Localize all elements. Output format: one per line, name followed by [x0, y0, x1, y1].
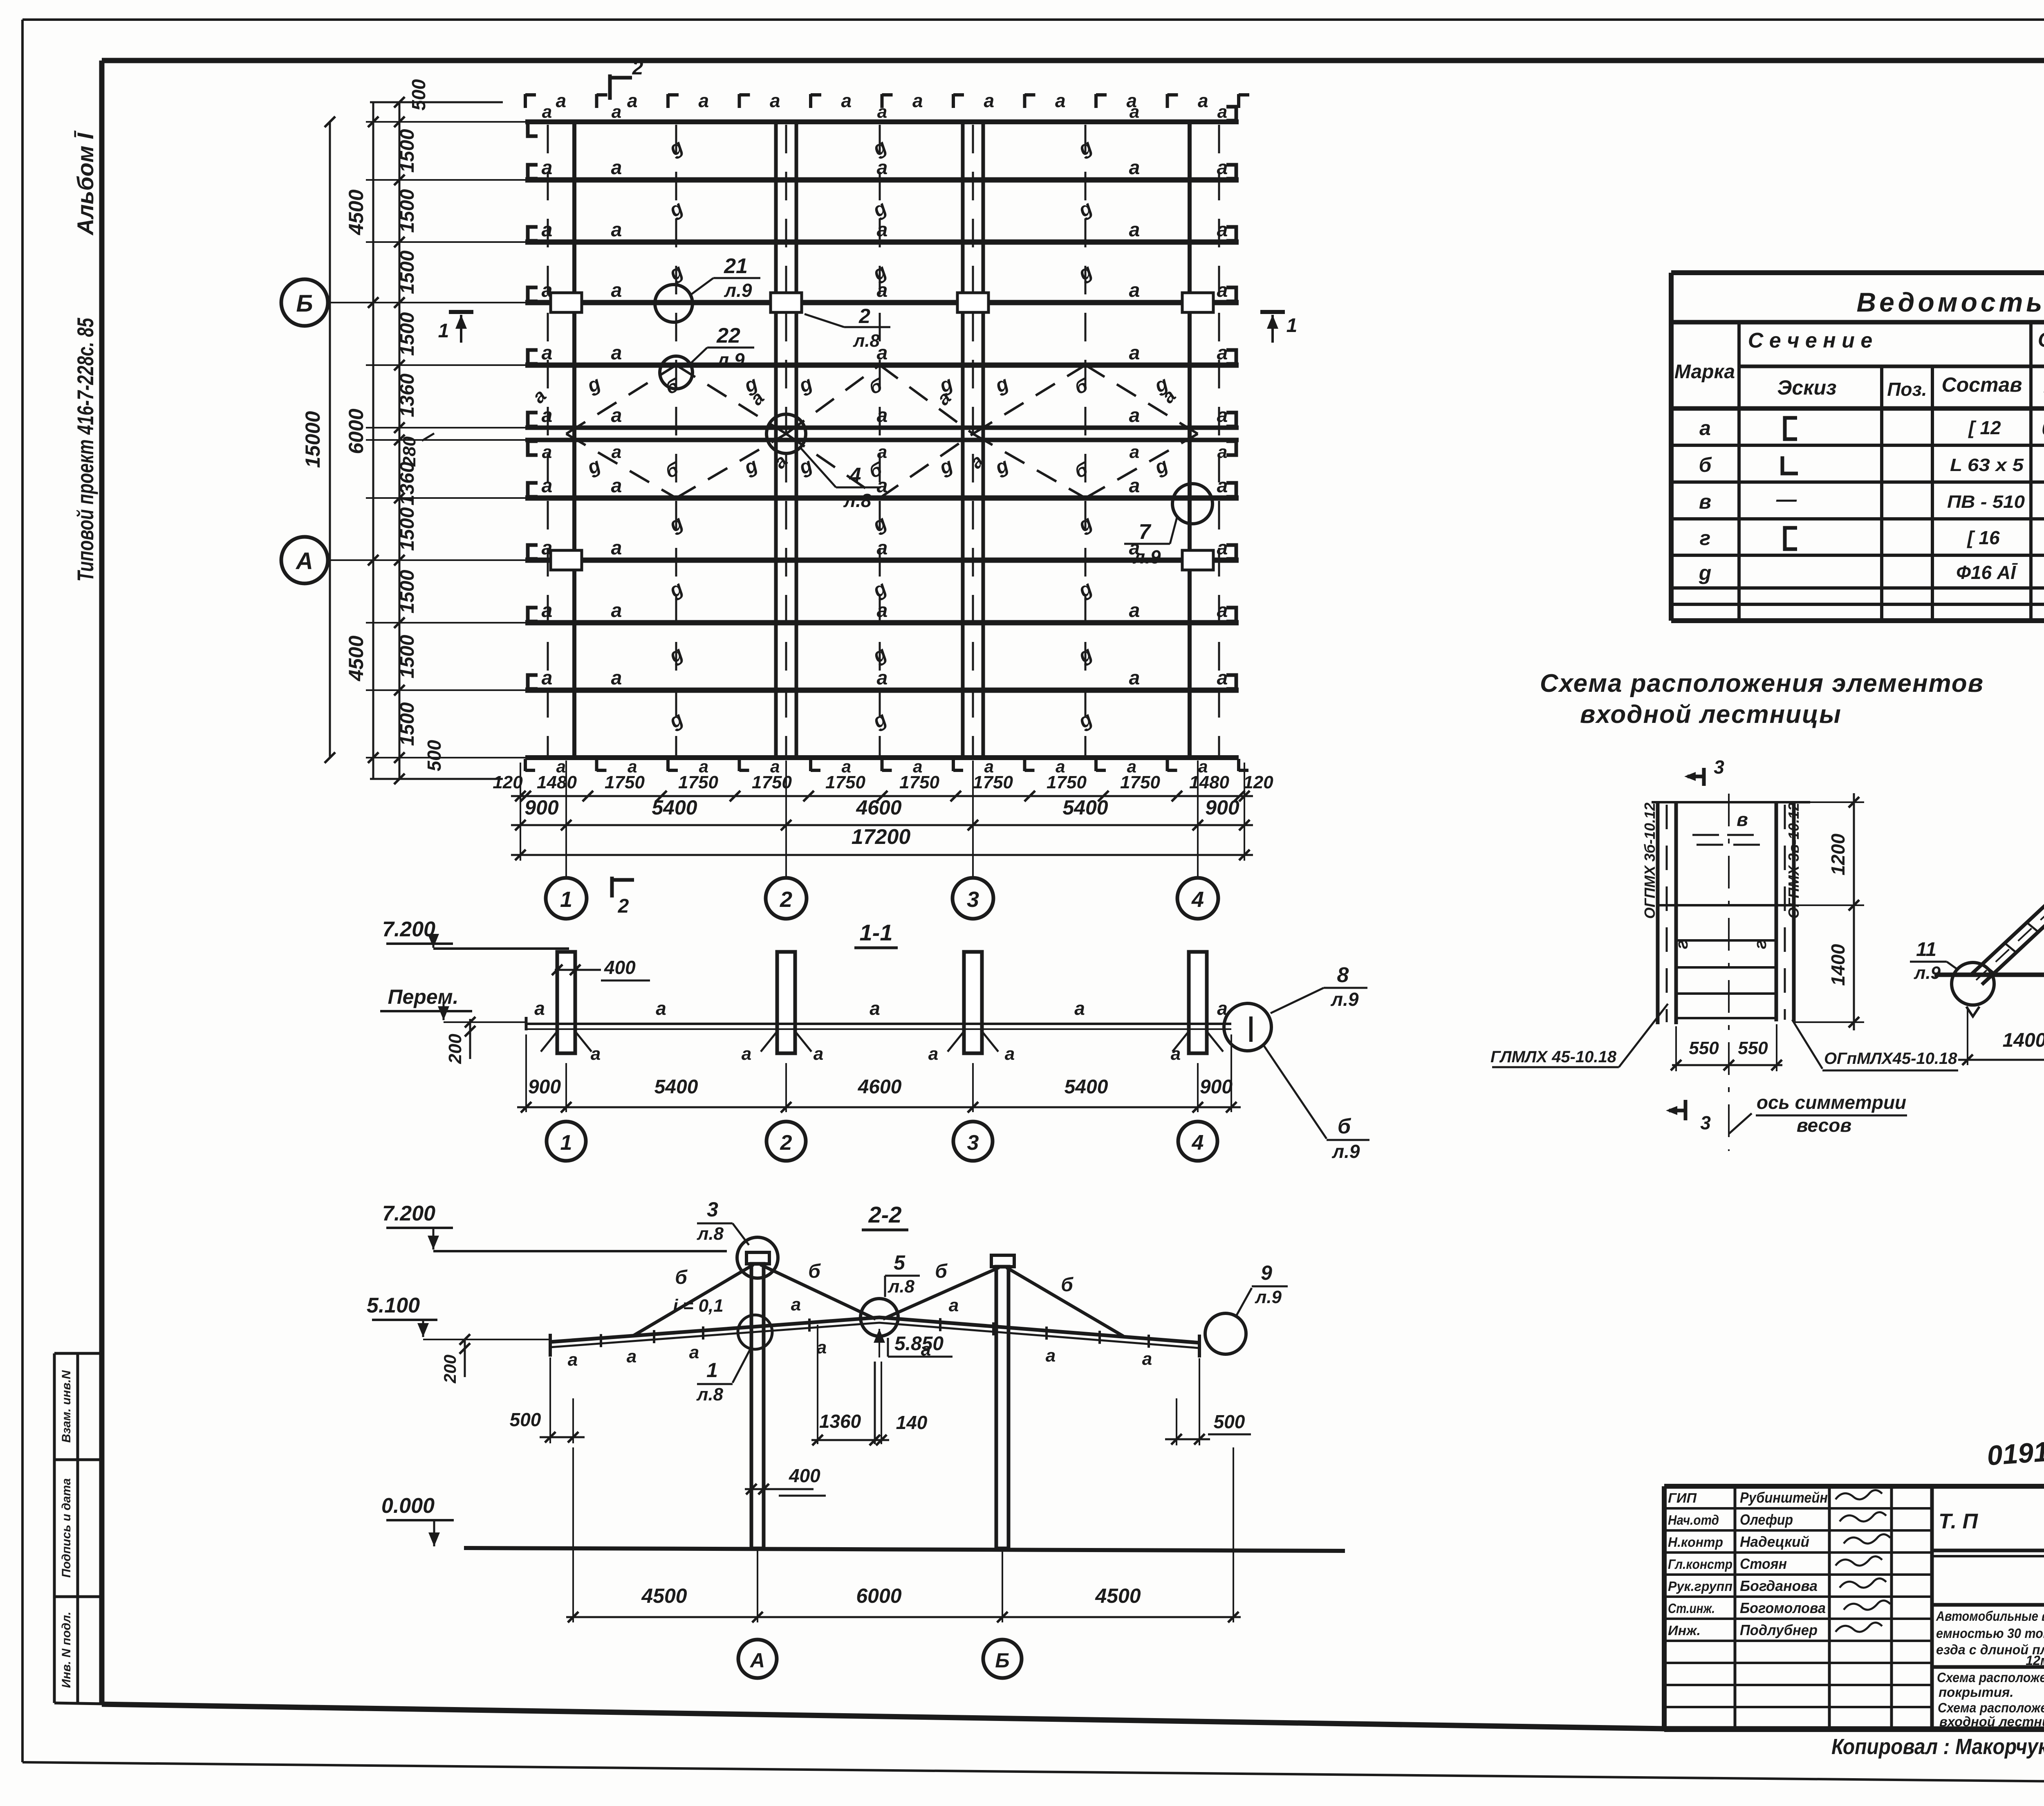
svg-text:ГЛМЛХ 45-10.18: ГЛМЛХ 45-10.18: [1490, 1048, 1617, 1066]
svg-text:1480: 1480: [537, 772, 577, 792]
svg-text:2: 2: [780, 1131, 792, 1155]
svg-text:a: a: [1129, 280, 1140, 301]
svg-text:Альбом Ī: Альбом Ī: [72, 130, 98, 236]
svg-text:1750: 1750: [1047, 772, 1087, 792]
svg-text:4500: 4500: [1095, 1584, 1141, 1607]
svg-text:1750: 1750: [605, 772, 645, 792]
svg-text:входной лестницы: входной лестницы: [1580, 700, 1842, 729]
svg-text:4: 4: [849, 464, 861, 487]
svg-text:a: a: [870, 998, 880, 1019]
svg-text:а: а: [1699, 417, 1711, 440]
svg-text:г: г: [1700, 527, 1711, 550]
svg-text:Нач.отд: Нач.отд: [1668, 1512, 1719, 1528]
svg-text:a: a: [542, 102, 552, 122]
svg-text:500: 500: [408, 79, 429, 110]
svg-text:Ведомость элементов: Ведомость элементов: [1856, 287, 2044, 317]
svg-text:2: 2: [858, 305, 870, 328]
svg-text:Схема расположения элементов: Схема расположения элементов: [1938, 1700, 2044, 1715]
svg-text:1: 1: [560, 887, 572, 912]
svg-text:1500: 1500: [397, 312, 418, 356]
svg-text:л.8: л.8: [888, 1277, 915, 1297]
svg-text:2: 2: [632, 57, 643, 79]
svg-text:a: a: [1129, 405, 1140, 426]
svg-text:a: a: [1129, 475, 1140, 497]
svg-text:4: 4: [1191, 887, 1204, 912]
svg-text:[ 12: [ 12: [1968, 417, 2001, 438]
svg-text:1: 1: [560, 1131, 572, 1155]
svg-text:6000: 6000: [856, 1584, 901, 1607]
svg-text:a: a: [1130, 102, 1139, 122]
svg-text:a: a: [1171, 1044, 1181, 1064]
svg-text:б: б: [675, 1267, 688, 1288]
svg-text:a: a: [1046, 1346, 1056, 1366]
svg-text:8: 8: [1337, 963, 1349, 987]
svg-text:a: a: [814, 1044, 823, 1064]
svg-text:3: 3: [967, 887, 979, 912]
svg-text:Автомобильные весы грузоподъ-: Автомобильные весы грузоподъ-: [1936, 1609, 2044, 1624]
svg-text:покрытия.: покрытия.: [1939, 1685, 2013, 1700]
svg-text:a: a: [534, 998, 545, 1019]
svg-text:500: 500: [424, 740, 445, 771]
svg-text:5: 5: [894, 1251, 905, 1274]
svg-text:i = 0,1: i = 0,1: [673, 1296, 724, 1316]
svg-text:900: 900: [528, 1076, 561, 1098]
svg-text:a: a: [612, 442, 621, 462]
svg-text:a: a: [877, 537, 888, 559]
svg-text:3: 3: [967, 1131, 979, 1155]
svg-text:200: 200: [440, 1355, 459, 1384]
svg-text:a: a: [542, 667, 553, 689]
svg-text:a: a: [1217, 537, 1228, 559]
svg-text:б: б: [1061, 1274, 1074, 1296]
svg-text:Схема расположения элементов: Схема расположения элементов: [1540, 669, 1984, 698]
svg-text:1: 1: [438, 320, 449, 342]
svg-text:Б: Б: [995, 1649, 1009, 1672]
svg-text:1500: 1500: [397, 635, 418, 678]
svg-text:1500: 1500: [397, 507, 418, 551]
svg-text:280: 280: [399, 436, 419, 467]
svg-text:3: 3: [1714, 756, 1724, 778]
svg-text:a: a: [1129, 219, 1140, 241]
svg-text:a: a: [1074, 998, 1085, 1019]
svg-text:[ 16: [ 16: [1966, 527, 2000, 548]
svg-text:a: a: [611, 405, 622, 426]
svg-text:л.8: л.8: [697, 1224, 724, 1244]
svg-text:a: a: [542, 219, 553, 241]
svg-text:ГИП: ГИП: [1668, 1490, 1697, 1505]
svg-text:a: a: [611, 219, 622, 241]
svg-text:7.200: 7.200: [382, 1202, 435, 1225]
svg-text:ПВ - 510: ПВ - 510: [1947, 492, 2025, 512]
svg-text:a: a: [542, 600, 553, 621]
svg-text:б: б: [1338, 1115, 1351, 1138]
svg-text:5.850: 5.850: [894, 1333, 944, 1355]
svg-text:900: 900: [1205, 796, 1239, 819]
svg-text:a: a: [1217, 280, 1228, 301]
svg-text:2: 2: [618, 895, 629, 917]
svg-text:Копировал : Макорчук: Копировал : Макорчук: [1831, 1734, 2044, 1759]
svg-text:7: 7: [1139, 520, 1152, 544]
svg-text:a: a: [1198, 90, 1208, 111]
svg-text:л.9: л.9: [717, 349, 745, 370]
svg-text:a: a: [877, 219, 888, 241]
svg-text:входной лестницы: входной лестницы: [1939, 1714, 2044, 1729]
svg-text:a: a: [1217, 667, 1228, 689]
svg-text:a: a: [568, 1350, 578, 1370]
svg-text:500: 500: [1214, 1411, 1245, 1432]
svg-text:Надецкий: Надецкий: [1740, 1533, 1809, 1550]
svg-text:4: 4: [1192, 1131, 1204, 1155]
svg-text:a: a: [698, 90, 709, 111]
svg-text:a: a: [611, 157, 622, 179]
svg-text:a: a: [877, 442, 887, 462]
svg-text:1500: 1500: [397, 129, 418, 173]
svg-text:л.9: л.9: [1332, 1141, 1360, 1162]
svg-text:Типовой проект 416-7-228с. 8: Типовой проект 416-7-228с. 85: [72, 318, 98, 582]
svg-text:л.9: л.9: [1255, 1287, 1282, 1307]
svg-text:6000: 6000: [345, 408, 368, 454]
svg-text:4500: 4500: [345, 635, 368, 681]
svg-text:1500: 1500: [397, 250, 418, 294]
svg-text:б: б: [1699, 453, 1712, 476]
svg-text:4500: 4500: [345, 189, 368, 235]
svg-text:g: g: [1699, 561, 1712, 584]
svg-text:—: —: [1776, 488, 1797, 511]
svg-text:ОГПМХ 3б-10.12: ОГПМХ 3б-10.12: [1641, 803, 1658, 919]
svg-text:a: a: [949, 1295, 959, 1315]
svg-text:Подпись и дата: Подпись и дата: [60, 1478, 73, 1577]
svg-text:л.8: л.8: [696, 1384, 724, 1404]
svg-text:2-2: 2-2: [868, 1202, 902, 1227]
svg-text:a: a: [742, 1044, 751, 1064]
svg-text:1-1: 1-1: [860, 920, 893, 945]
svg-text:ось симметрии: ось симметрии: [1757, 1092, 1906, 1113]
svg-text:a: a: [627, 1346, 637, 1366]
svg-text:a: a: [1217, 405, 1228, 426]
svg-text:1750: 1750: [1120, 772, 1160, 792]
svg-text:б: б: [935, 1261, 948, 1282]
svg-text:a: a: [542, 442, 552, 462]
svg-text:a: a: [611, 600, 622, 621]
svg-text:400: 400: [789, 1465, 820, 1486]
svg-text:0.000: 0.000: [381, 1494, 435, 1518]
svg-text:Подлубнер: Подлубнер: [1740, 1622, 1818, 1638]
svg-text:Б: Б: [296, 290, 313, 317]
svg-text:4600: 4600: [858, 1076, 902, 1098]
svg-text:a: a: [984, 90, 994, 111]
svg-text:a: a: [611, 342, 622, 364]
svg-text:a: a: [1217, 342, 1228, 364]
svg-text:7.200: 7.200: [382, 918, 435, 941]
svg-text:500: 500: [510, 1409, 541, 1430]
svg-text:л.9: л.9: [1133, 546, 1161, 568]
svg-text:Инв. N подл.: Инв. N подл.: [60, 1612, 73, 1688]
svg-text:л.8: л.8: [843, 490, 872, 511]
svg-text:a: a: [1055, 90, 1066, 111]
svg-text:весов: весов: [1797, 1115, 1851, 1136]
svg-text:a: a: [877, 405, 888, 426]
svg-text:ТС М: ТС М: [2043, 388, 2044, 405]
svg-text:a: a: [877, 667, 888, 689]
svg-text:a: a: [612, 102, 621, 122]
svg-text:a: a: [841, 90, 852, 111]
svg-text:Эскиз: Эскиз: [1777, 376, 1836, 399]
svg-text:ОГПМХ 3в-10.12: ОГПМХ 3в-10.12: [1785, 803, 1802, 919]
svg-text:a: a: [770, 90, 780, 111]
svg-text:5400: 5400: [654, 1076, 698, 1098]
svg-text:a: a: [611, 475, 622, 497]
svg-text:Т. П: Т. П: [1939, 1510, 1979, 1533]
svg-text:5.100: 5.100: [367, 1294, 420, 1317]
svg-text:a: a: [542, 280, 553, 301]
svg-text:1500: 1500: [397, 702, 418, 746]
svg-text:a: a: [1217, 475, 1228, 497]
svg-text:a: a: [542, 157, 553, 179]
svg-text:Опорные усилия: Опорные усилия: [2038, 328, 2044, 351]
svg-text:a: a: [556, 90, 566, 111]
svg-text:1: 1: [706, 1359, 718, 1382]
svg-text:a: a: [791, 1294, 801, 1315]
svg-text:Поз.: Поз.: [1887, 379, 1927, 400]
svg-text:120: 120: [493, 772, 523, 792]
svg-text:л.9: л.9: [724, 280, 752, 301]
svg-text:a: a: [542, 342, 553, 364]
svg-text:емностью 30 тонн на два про-: емностью 30 тонн на два про-: [1936, 1626, 2044, 1641]
svg-text:200: 200: [445, 1034, 465, 1064]
svg-text:1360: 1360: [397, 462, 418, 505]
svg-text:5400: 5400: [1065, 1076, 1108, 1098]
svg-text:21: 21: [724, 254, 748, 278]
svg-text:550: 550: [1689, 1038, 1719, 1058]
svg-text:1360: 1360: [819, 1411, 861, 1432]
svg-text:5400: 5400: [652, 796, 697, 819]
svg-text:л.9: л.9: [1914, 963, 1941, 983]
svg-text:a: a: [1217, 102, 1227, 122]
svg-text:Стоян: Стоян: [1740, 1555, 1787, 1572]
svg-text:9: 9: [1261, 1261, 1272, 1284]
svg-text:a: a: [689, 1342, 699, 1362]
svg-text:1: 1: [1286, 315, 1298, 337]
svg-text:1400: 1400: [1827, 944, 1849, 986]
svg-text:1750: 1750: [678, 772, 718, 792]
svg-text:900: 900: [1200, 1076, 1233, 1098]
svg-text:a: a: [542, 405, 553, 426]
svg-text:a: a: [1005, 1044, 1015, 1064]
svg-text:a: a: [1142, 1349, 1152, 1369]
svg-text:Взам. инв.N: Взам. инв.N: [60, 1370, 73, 1443]
svg-text:ОГпМЛХ45-10.18: ОГпМЛХ45-10.18: [1824, 1050, 1957, 1068]
svg-text:А: А: [295, 548, 313, 574]
svg-text:б: б: [808, 1261, 821, 1282]
svg-text:Рук.групп: Рук.групп: [1668, 1579, 1732, 1594]
svg-text:1480: 1480: [1189, 772, 1229, 792]
svg-text:a: a: [1217, 442, 1227, 462]
svg-text:3: 3: [1700, 1112, 1711, 1133]
svg-text:1750: 1750: [973, 772, 1013, 792]
svg-text:4500: 4500: [641, 1584, 687, 1607]
svg-text:2: 2: [780, 887, 792, 912]
svg-text:Богомолова: Богомолова: [1740, 1600, 1826, 1616]
svg-text:г: г: [1750, 940, 1770, 949]
svg-text:a: a: [656, 998, 666, 1019]
svg-text:400: 400: [604, 957, 636, 978]
svg-text:1360: 1360: [397, 373, 418, 417]
svg-text:Схема расположения элементов: Схема расположения элементов: [1937, 1670, 2044, 1685]
svg-text:L 63 x 5: L 63 x 5: [1950, 455, 2024, 475]
svg-text:a: a: [611, 537, 622, 559]
svg-text:С е ч е н и е: С е ч е н и е: [1748, 329, 1872, 352]
svg-text:a: a: [928, 1044, 938, 1064]
svg-text:л.8: л.8: [853, 331, 880, 351]
svg-text:1500: 1500: [397, 189, 418, 233]
svg-text:120: 120: [1243, 772, 1273, 792]
svg-text:a: a: [1129, 600, 1140, 621]
svg-text:a: a: [1217, 219, 1228, 241]
svg-text:в: в: [1737, 809, 1748, 830]
svg-text:л.9: л.9: [1331, 989, 1359, 1010]
svg-text:15000: 15000: [301, 411, 324, 468]
svg-text:a: a: [611, 280, 622, 301]
svg-text:Марка: Марка: [1674, 361, 1735, 383]
svg-text:11: 11: [1916, 939, 1936, 960]
svg-text:a: a: [1217, 157, 1228, 179]
svg-text:Олефир: Олефир: [1740, 1511, 1793, 1528]
svg-text:Инж.: Инж.: [1668, 1623, 1701, 1638]
svg-text:Гл.констр: Гл.констр: [1668, 1557, 1732, 1572]
svg-text:0,41: 0,41: [2042, 417, 2044, 440]
svg-text:a: a: [591, 1044, 601, 1064]
svg-text:Н.контр: Н.контр: [1668, 1535, 1723, 1550]
svg-text:Ф16 АĪ: Ф16 АĪ: [1956, 562, 2018, 583]
svg-text:Богданова: Богданова: [1740, 1577, 1818, 1594]
svg-text:a: a: [542, 537, 553, 559]
svg-text:3: 3: [707, 1198, 718, 1221]
svg-text:1500: 1500: [397, 570, 418, 613]
svg-text:a: a: [1217, 600, 1228, 621]
svg-text:a: a: [877, 600, 888, 621]
svg-text:1750: 1750: [899, 772, 939, 792]
svg-text:17200: 17200: [852, 825, 911, 849]
svg-text:550: 550: [1738, 1038, 1768, 1058]
svg-text:5400: 5400: [1062, 796, 1108, 819]
svg-text:Ст.инж.: Ст.инж.: [1668, 1601, 1715, 1616]
svg-text:a: a: [1129, 157, 1140, 179]
svg-text:в: в: [1699, 490, 1711, 513]
svg-text:Перем.: Перем.: [388, 985, 459, 1008]
svg-text:a: a: [1130, 442, 1139, 462]
svg-text:900: 900: [524, 796, 559, 819]
svg-text:a: a: [912, 90, 923, 111]
svg-text:140: 140: [896, 1412, 928, 1433]
svg-text:a: a: [877, 157, 888, 179]
svg-text:a: a: [611, 667, 622, 689]
svg-text:А: А: [749, 1649, 765, 1672]
svg-text:1750: 1750: [825, 772, 865, 792]
svg-text:12м: 12м: [2026, 1653, 2044, 1668]
svg-text:1200: 1200: [1827, 833, 1849, 875]
svg-text:Состав: Состав: [1942, 373, 2022, 396]
svg-text:22: 22: [716, 324, 740, 348]
svg-text:Рубинштейн: Рубинштейн: [1740, 1489, 1828, 1506]
svg-text:a: a: [1129, 667, 1140, 689]
svg-text:a: a: [1129, 342, 1140, 364]
svg-text:a: a: [877, 102, 887, 122]
svg-text:г: г: [1672, 940, 1691, 949]
svg-text:a: a: [627, 90, 638, 111]
svg-text:4600: 4600: [856, 796, 901, 819]
svg-text:a: a: [542, 475, 553, 497]
svg-text:1400: 1400: [2003, 1030, 2044, 1051]
